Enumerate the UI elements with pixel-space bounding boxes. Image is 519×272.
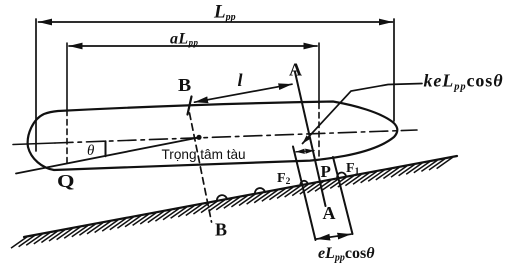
extension line left perpendicular (Lpp) <box>35 19 37 151</box>
section line A-A <box>295 72 326 206</box>
ship hull outline <box>28 102 398 171</box>
svg-text:θ: θ <box>87 143 95 159</box>
ship centerline (dash-dot) <box>13 143 55 145</box>
svg-text:Trọng tâm tàu: Trọng tâm tàu <box>162 147 246 162</box>
svg-text:B: B <box>178 75 191 95</box>
inclined line Q-G (keel line of slipway through centre of gravity) <box>16 137 200 173</box>
svg-text:P: P <box>321 162 331 181</box>
support dome F2 <box>300 181 307 185</box>
support dome F1 <box>337 173 346 178</box>
ground (slipway) line <box>24 156 457 237</box>
sliding ways right edge <box>333 157 353 234</box>
angle theta end bar <box>105 141 107 156</box>
section line B-B (dashed) <box>190 113 212 222</box>
extension line left of alpha-Lpp (solid above hull, dashed through hull to Q) <box>66 43 68 166</box>
roller dome 2 <box>255 188 265 194</box>
svg-text:eLppcosθ: eLppcosθ <box>318 245 375 264</box>
extension line right of alpha-Lpp (solid above hull, dashed down to P) <box>318 43 320 158</box>
svg-text:A: A <box>323 203 336 223</box>
roller dome 1 <box>217 195 227 201</box>
dimension line alpha-Lpp <box>69 45 317 47</box>
leader line to keLpp-cos-theta label <box>303 84 423 144</box>
section mark B (tick on deck line) <box>188 97 192 115</box>
svg-text:l: l <box>238 70 243 90</box>
svg-text:Q: Q <box>57 171 75 191</box>
sliding ways left edge <box>293 147 316 241</box>
dimension l (from B to A-A line) <box>195 84 293 102</box>
extension line right perpendicular (Lpp) <box>393 19 395 121</box>
dimension line Lpp <box>39 21 393 23</box>
svg-text:A: A <box>289 60 302 80</box>
centre of gravity point G <box>196 135 201 140</box>
small dimension keLpp-cos-theta (double arrow at P) <box>296 151 314 152</box>
ground hatching <box>11 157 453 248</box>
dimension eLpp-cos-theta (bottom double arrow) <box>317 234 352 239</box>
svg-text:B: B <box>215 220 227 240</box>
